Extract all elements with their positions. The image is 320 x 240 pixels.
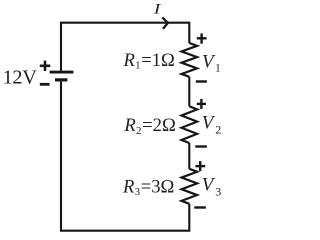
wire between R2 and R3 [188, 143, 190, 169]
resistor R1 [182, 43, 198, 77]
plus sign V2 [197, 99, 206, 109]
svg-text:V1: V1 [202, 51, 221, 74]
svg-text:R2=2Ω: R2=2Ω [123, 115, 175, 137]
svg-text:12V: 12V [3, 67, 38, 89]
svg-text:R3=3Ω: R3=3Ω [122, 176, 174, 198]
svg-text:V2: V2 [202, 112, 221, 136]
wire bottom [61, 82, 189, 231]
wire top [61, 23, 189, 71]
battery V plate long [50, 71, 74, 74]
plus sign V3 [196, 161, 206, 171]
battery V plate short [55, 78, 67, 81]
current arrow head [162, 17, 168, 29]
plus sign V1 [197, 33, 207, 43]
minus sign V1 [196, 80, 207, 82]
wire between R1 and R2 [188, 77, 190, 107]
svg-text:I: I [152, 2, 162, 18]
svg-text:R1=1Ω: R1=1Ω [123, 50, 175, 72]
battery plus sign [40, 61, 51, 71]
resistor R2 [182, 106, 198, 143]
svg-text:V3: V3 [202, 174, 221, 198]
resistor R3 [182, 169, 198, 204]
battery minus sign [40, 83, 50, 86]
minus sign V2 [195, 145, 207, 147]
minus sign V3 [194, 206, 206, 208]
